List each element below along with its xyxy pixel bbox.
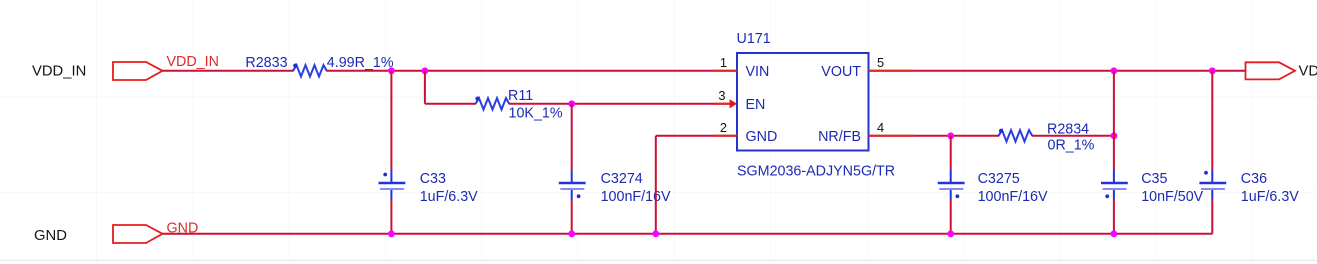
wire C3275 branch vertical (top): [950, 136, 952, 170]
wire VDD_IN: R2833 to pin 1: [326, 70, 737, 72]
junction GND rail / C3275: [947, 230, 954, 237]
svg-text:10nF/50V: 10nF/50V: [1141, 189, 1203, 205]
junction at EN branch: [422, 67, 429, 74]
junction GND rail / C35: [1111, 230, 1118, 237]
capacitor C36: [1199, 170, 1226, 200]
resistor R2833: [293, 65, 327, 76]
junction GND rail / C3274: [568, 230, 575, 237]
capacitor C3275: [938, 170, 965, 200]
svg-text:GND: GND: [167, 221, 199, 237]
svg-text:1uF/6.3V: 1uF/6.3V: [420, 189, 478, 205]
port VDD_IN: [113, 62, 163, 80]
svg-text:0R_1%: 0R_1%: [1048, 138, 1095, 154]
junction NR/FB / C3275 branch: [947, 132, 954, 139]
svg-text:VDD: VDD: [1299, 64, 1317, 80]
capacitor C3274: [559, 170, 586, 200]
wire C36 to GND rail corner: [1211, 200, 1213, 234]
wire C3274 branch vertical (top): [571, 104, 573, 170]
port VDD (right): [1246, 62, 1296, 79]
svg-text:GND: GND: [34, 228, 67, 244]
junction NR/FB / C35 column: [1111, 132, 1118, 139]
svg-text:C33: C33: [420, 171, 446, 187]
wire C36 column vertical top: [1211, 71, 1213, 170]
wire EN: corner to R11: [425, 103, 476, 105]
svg-text:SGM2036-ADJYN5G/TR: SGM2036-ADJYN5G/TR: [737, 164, 895, 180]
svg-text:4.99R_1%: 4.99R_1%: [327, 55, 394, 71]
junction VOUT / C36 column: [1209, 67, 1216, 74]
svg-text:4: 4: [877, 120, 884, 135]
svg-text:VDD_IN: VDD_IN: [167, 54, 219, 70]
capacitor C33: [379, 170, 406, 200]
svg-text:C3275: C3275: [978, 171, 1020, 187]
junction at C3274 branch: [568, 100, 575, 107]
wire GND rail: [163, 233, 1213, 235]
svg-text:C36: C36: [1241, 171, 1267, 187]
svg-text:1uF/6.3V: 1uF/6.3V: [1241, 189, 1299, 205]
IC U171 body: [737, 53, 869, 151]
svg-text:100nF/16V: 100nF/16V: [978, 189, 1048, 205]
svg-text:3: 3: [718, 88, 725, 103]
wire C3275 to GND rail: [950, 200, 952, 234]
wire C3274 to GND rail: [571, 200, 573, 234]
svg-text:100nF/16V: 100nF/16V: [601, 189, 671, 205]
svg-text:U171: U171: [737, 31, 771, 47]
wire C33 to GND rail: [390, 200, 392, 234]
junction VOUT / C35 column: [1111, 67, 1118, 74]
svg-text:R2833: R2833: [245, 55, 287, 71]
junction at C33 branch: [388, 67, 395, 74]
svg-text:EN: EN: [746, 97, 766, 113]
svg-text:10K_1%: 10K_1%: [509, 105, 563, 121]
svg-text:5: 5: [877, 55, 884, 70]
svg-text:NR/FB: NR/FB: [818, 129, 861, 145]
capacitor C35: [1101, 170, 1128, 200]
svg-text:1: 1: [720, 55, 727, 70]
svg-text:2: 2: [720, 120, 727, 135]
svg-text:C35: C35: [1141, 171, 1167, 187]
wire C35 to GND rail: [1113, 200, 1115, 234]
svg-text:GND: GND: [746, 129, 778, 145]
wire VDD_IN: port to R2833: [163, 70, 294, 72]
junction GND rail / C33: [388, 230, 395, 237]
wire VOUT: pin 5 to right port: [869, 70, 1246, 72]
svg-text:C3274: C3274: [601, 171, 643, 187]
wire NR/FB: pin 4 to R2834: [869, 135, 1000, 137]
wire C35 column vertical top: [1113, 71, 1115, 170]
port GND: [113, 225, 163, 243]
wire EN: R11 to pin 3: [509, 103, 731, 105]
wire C33 branch vertical (top): [390, 71, 392, 170]
wire EN branch vertical: [424, 71, 426, 104]
resistor R11: [476, 98, 510, 109]
wire GND pin 2 horizontal: [656, 135, 737, 137]
resistor R2834: [999, 130, 1033, 141]
svg-text:R11: R11: [508, 88, 533, 104]
wire GND pin 2 vertical to rail: [655, 136, 657, 234]
wire NR/FB: R2834 to C35 column: [1032, 135, 1114, 137]
svg-text:VDD_IN: VDD_IN: [32, 64, 86, 80]
svg-text:VIN: VIN: [746, 64, 770, 80]
pin stubs (brighter red near IC pins): [714, 71, 914, 136]
svg-text:VOUT: VOUT: [821, 64, 861, 80]
junction GND rail / U171 GND: [652, 230, 659, 237]
